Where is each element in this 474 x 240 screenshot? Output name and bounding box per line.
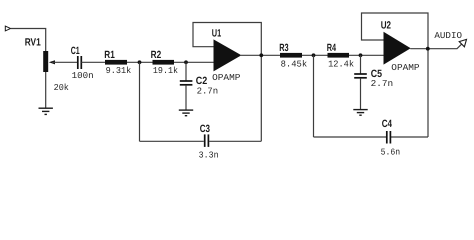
- svg-text:R4: R4: [327, 42, 337, 54]
- capacitor C5: [354, 74, 367, 78]
- wire node D down to C5: [360, 55, 362, 73]
- svg-text:12.4k: 12.4k: [328, 60, 354, 70]
- wire C5 to ground: [360, 78, 362, 109]
- wire C2 to ground: [185, 85, 187, 110]
- svg-text:C1: C1: [71, 45, 80, 57]
- AUDIO output arrow: [459, 39, 466, 46]
- capacitor C4: [387, 131, 391, 144]
- wire U1 feedback loop: [193, 23, 261, 142]
- svg-text:19.1k: 19.1k: [153, 66, 178, 76]
- wire node B down to C2: [185, 62, 187, 80]
- svg-text:R3: R3: [279, 42, 289, 54]
- capacitor C1: [78, 56, 82, 69]
- wire C1 to R1: [81, 61, 105, 63]
- svg-text:AUDIO: AUDIO: [434, 31, 462, 41]
- svg-text:5.6n: 5.6n: [381, 147, 401, 157]
- svg-text:8.45k: 8.45k: [281, 60, 308, 70]
- svg-text:9.31k: 9.31k: [106, 66, 132, 76]
- capacitor C2: [180, 81, 193, 85]
- wire R4 to U2 + input: [349, 54, 384, 56]
- node A junction: [138, 60, 142, 64]
- ground (C5): [353, 110, 367, 116]
- svg-text:U2: U2: [381, 20, 391, 32]
- wire U1 output to R3: [241, 54, 280, 56]
- wiper arrow of RV1: [49, 60, 55, 64]
- resistor R4: [328, 53, 350, 58]
- input arrow: [5, 26, 10, 31]
- svg-text:20k: 20k: [54, 83, 69, 93]
- svg-text:C2: C2: [196, 75, 208, 87]
- op-amp U2: [384, 32, 411, 65]
- wire U2 output to AUDIO: [410, 44, 462, 49]
- svg-text:U1: U1: [212, 28, 222, 40]
- wire input to RV1 top: [11, 29, 46, 52]
- wire wiper to C1: [52, 61, 77, 63]
- resistor R1: [105, 60, 127, 65]
- wire node A down to bottom loop: [139, 62, 141, 141]
- svg-text:C4: C4: [382, 118, 392, 130]
- junction U2 output: [426, 47, 430, 51]
- svg-text:3.3n: 3.3n: [199, 150, 219, 160]
- resistor R2: [153, 60, 175, 65]
- op-amp U1: [214, 39, 242, 71]
- resistor R3: [280, 53, 302, 58]
- node B junction: [184, 60, 188, 64]
- wire node C down to bottom loop 2: [313, 55, 315, 137]
- wire R1 to R2: [127, 61, 153, 63]
- ground (C2): [179, 110, 193, 116]
- junction U1 output: [259, 53, 263, 57]
- node C junction: [312, 53, 316, 57]
- svg-text:R1: R1: [104, 49, 115, 61]
- wire R3 to R4: [302, 54, 328, 56]
- svg-text:OPAMP: OPAMP: [212, 73, 240, 83]
- svg-text:2.7n: 2.7n: [197, 86, 219, 96]
- wire bottom loop 1: [140, 140, 262, 142]
- svg-text:R2: R2: [151, 49, 162, 61]
- ground (RV1): [39, 108, 53, 114]
- wire U2 feedback loop: [362, 13, 429, 137]
- node D junction: [359, 53, 363, 57]
- wire bottom loop 2: [314, 136, 429, 138]
- svg-text:2.7n: 2.7n: [371, 79, 394, 89]
- svg-text:RV1: RV1: [25, 36, 41, 48]
- capacitor C3: [205, 134, 209, 147]
- wire R2 to U1 + input: [174, 61, 214, 63]
- wire RV1 bottom to ground: [45, 72, 47, 108]
- svg-text:100n: 100n: [72, 71, 94, 81]
- potentiometer RV1: [43, 51, 48, 72]
- svg-text:C3: C3: [200, 123, 210, 135]
- svg-text:OPAMP: OPAMP: [391, 63, 419, 73]
